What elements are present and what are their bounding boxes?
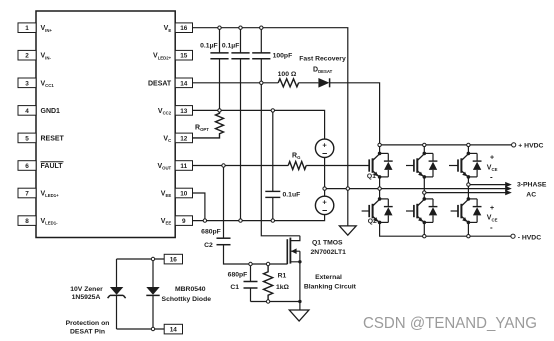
wire col1 emitter to Q2 collector	[379, 177, 381, 199]
svg-text:3: 3	[25, 80, 29, 87]
IGBT bottom col3	[458, 197, 482, 224]
svg-text:1: 1	[25, 25, 29, 32]
svg-text:2N7002LT1: 2N7002LT1	[311, 249, 347, 256]
svg-text:External: External	[315, 274, 342, 281]
svg-text:R1: R1	[278, 273, 287, 280]
resistor 100 ohm on DESAT line	[278, 79, 298, 87]
resistor R1 1k gate row to ground row	[264, 264, 273, 302]
capacitor 0.1uF no2 between VE and VEE	[240, 28, 242, 221]
svg-text:+: +	[490, 205, 494, 212]
wire col3 bottom emitter to -HVDC	[467, 222, 469, 236]
svg-text:15: 15	[180, 53, 188, 60]
IGBT Q2 bottom col1	[369, 197, 393, 224]
pin 8 box	[18, 216, 36, 226]
capacitor 0.1uF output supply bypass VCC2 to VEE	[272, 110, 274, 220]
svg-text:- HVDC: - HVDC	[518, 234, 542, 241]
svg-text:8: 8	[25, 218, 29, 225]
svg-text:Q2: Q2	[368, 218, 377, 225]
wire col3 top collector stub	[467, 145, 469, 154]
wire col2 top collector stub	[423, 145, 425, 154]
wire VEE row pin9 to source2 bottom	[193, 215, 325, 221]
svg-text:−: −	[322, 206, 327, 216]
wire DESAT blanking sense line down to TMOS drain	[261, 83, 300, 236]
svg-text:12: 12	[180, 135, 188, 142]
svg-text:7: 7	[25, 191, 29, 198]
wire VE row pin16 to right then down to phase node	[193, 28, 348, 189]
wire col3 emitter to lower collector	[467, 177, 469, 199]
voltage source VS1 VCC2 to VE	[315, 139, 333, 157]
svg-text:RESET: RESET	[41, 135, 65, 142]
wire VCC2 row pin13 down to source1	[193, 110, 325, 139]
pin 6 box	[18, 161, 36, 171]
wire DESAT resistor to diode	[299, 82, 319, 84]
transistor Q1 TMOS 2N7002LT1	[291, 236, 300, 302]
svg-text:11: 11	[180, 163, 187, 170]
wire col2 bottom emitter to -HVDC	[423, 222, 425, 236]
svg-text:Blanking Circuit: Blanking Circuit	[304, 283, 357, 290]
wire blanking ground row	[251, 301, 300, 303]
svg-text:680pF: 680pF	[228, 272, 248, 279]
svg-text:MBR0540: MBR0540	[175, 286, 206, 293]
wire col2 emitter to lower collector	[423, 177, 425, 199]
ground symbol on VE / phase node	[347, 189, 349, 226]
capacitor C2 680pF from VOUT to blanking gate row	[224, 166, 288, 265]
capacitor 0.1uF no1 between VE and VCC2	[219, 28, 221, 111]
svg-text:-: -	[490, 223, 493, 232]
svg-text:16: 16	[180, 25, 188, 32]
svg-text:C2: C2	[204, 242, 213, 249]
wire VOUT row pin11 to RG	[193, 165, 289, 167]
svg-text:-: -	[490, 173, 493, 182]
pin 9 box	[175, 216, 192, 226]
pin 16 box	[175, 23, 192, 33]
wire pin10 to VEE row	[193, 193, 205, 221]
pin 4 box	[18, 106, 36, 116]
svg-text:10: 10	[180, 191, 188, 198]
pin 12 box	[175, 133, 192, 143]
svg-text:16: 16	[170, 257, 178, 264]
svg-text:DESAT: DESAT	[148, 80, 172, 87]
svg-text:GND1: GND1	[41, 108, 61, 115]
svg-text:10V Zener: 10V Zener	[70, 286, 103, 293]
wire DESAT row pin14	[193, 82, 279, 84]
pin 14 box	[175, 78, 192, 88]
svg-text:+ HVDC: + HVDC	[518, 143, 543, 150]
svg-text:DESAT Pin: DESAT Pin	[70, 329, 105, 336]
svg-text:0.1µF: 0.1µF	[222, 43, 240, 50]
pin 13 box	[175, 106, 192, 116]
svg-text:0.1µF: 0.1µF	[200, 43, 218, 50]
wire between supply sources and phase node	[324, 158, 326, 197]
svg-text:5: 5	[25, 135, 29, 142]
wire 3-phase line C	[468, 184, 506, 186]
svg-text:14: 14	[170, 327, 178, 334]
svg-text:3-PHASE: 3-PHASE	[517, 182, 547, 189]
svg-text:0.1uF: 0.1uF	[283, 192, 301, 199]
IGBT top col3	[458, 152, 482, 179]
IGBT Q1 top col1	[369, 152, 393, 179]
svg-text:9: 9	[182, 218, 186, 225]
svg-text:14: 14	[180, 80, 188, 87]
IGBT bottom col2	[414, 197, 438, 224]
schottky diode MBR0540	[152, 259, 154, 329]
svg-text:100pF: 100pF	[273, 53, 293, 60]
terminal +HVDC	[512, 143, 516, 147]
svg-text:C1: C1	[230, 284, 239, 291]
protection circuit: pin 16 stub box	[117, 258, 165, 260]
wire gate stub bottom col2	[406, 210, 414, 212]
wire 3-phase line A	[325, 188, 507, 190]
svg-text:13: 13	[180, 108, 188, 115]
svg-text:680pF: 680pF	[201, 229, 221, 236]
pin 15 box	[175, 50, 192, 60]
junction on protection rails	[151, 257, 154, 260]
svg-text:Fast Recovery: Fast Recovery	[299, 55, 346, 62]
pin 11 box	[175, 161, 192, 171]
wire gate stub bottom col3	[451, 210, 458, 212]
capacitor C1 680pF gate row to ground row	[250, 264, 252, 302]
pin 7 box	[18, 188, 36, 198]
op-amp gate driver IC U1 body	[36, 11, 175, 238]
IGBT top col2	[414, 152, 438, 179]
wire 3-phase line B	[424, 192, 506, 194]
wire DESAT diode to Q1 collector sense line	[330, 83, 380, 152]
pin 1 box	[18, 23, 36, 33]
svg-text:6: 6	[25, 163, 29, 170]
svg-text:100 Ω: 100 Ω	[278, 71, 297, 78]
pin 5 box	[18, 133, 36, 143]
svg-text:1kΩ: 1kΩ	[276, 284, 290, 291]
svg-text:AC: AC	[526, 191, 536, 198]
resistor RG on VOUT line	[288, 162, 306, 170]
terminal -HVDC	[511, 234, 515, 238]
wire gate stub top col3	[449, 165, 458, 167]
voltage source VS2 VE to VEE	[315, 196, 333, 214]
resistor ROPT between VCC2 and VC	[193, 110, 224, 137]
svg-text:1N5925A: 1N5925A	[72, 294, 101, 301]
svg-text:4: 4	[25, 108, 29, 115]
wire -HVDC rail from Q2 emitter	[380, 222, 511, 236]
svg-text:2: 2	[25, 53, 29, 60]
pin 3 box	[18, 78, 36, 88]
svg-text:CSDN @TENAND_YANG: CSDN @TENAND_YANG	[363, 315, 537, 332]
3-phase arrowheads	[505, 182, 512, 187]
svg-text:Protection on: Protection on	[66, 320, 110, 327]
svg-text:+: +	[490, 155, 494, 162]
capacitor 100pF between VE and DESAT	[260, 28, 262, 83]
pin 10 box	[175, 188, 192, 198]
zener diode 1N5925A	[116, 259, 118, 329]
pin 2 box	[18, 50, 36, 60]
diode DDESAT fast recovery	[318, 78, 329, 88]
wire RG to Q1 gate	[306, 165, 369, 167]
node junction donuts	[218, 26, 221, 29]
svg-text:Q1: Q1	[367, 173, 376, 180]
wire +HVDC rail	[380, 144, 512, 146]
ground symbol below blanking circuit	[299, 302, 301, 311]
svg-text:FAULT: FAULT	[41, 163, 64, 170]
wire gate stub top col2	[406, 165, 414, 167]
wire gate stub bottom col1	[362, 210, 370, 212]
svg-text:−: −	[322, 148, 327, 158]
svg-text:Schottky Diode: Schottky Diode	[162, 296, 212, 303]
protection circuit: pin 14 stub box	[117, 328, 165, 330]
svg-text:Q1 TMOS: Q1 TMOS	[312, 239, 343, 246]
